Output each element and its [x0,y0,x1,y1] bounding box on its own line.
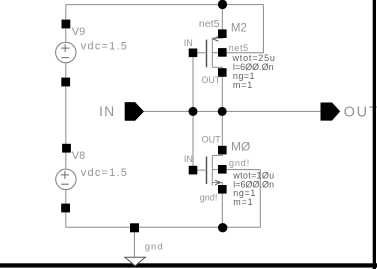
junction dot OUT [218,107,227,116]
pin M0 source [218,185,227,194]
wire left rail vertical (V9 top) [65,5,67,43]
source arrow (pmos, points to channel) [213,37,219,42]
wire bottom rail gnd [66,226,260,228]
svg-text:gnd!: gnd! [200,193,218,203]
pin M2 drain [218,68,227,77]
border bottom [0,263,377,267]
bulk leg [212,169,218,171]
pin M0 drain [218,146,227,155]
drain leg [212,152,222,155]
channel bar [211,38,213,67]
wire gnd stub [133,232,135,257]
gate wire [193,169,207,171]
wire gate column [192,57,194,166]
junction dot net5 top [218,0,227,9]
source leg [212,183,222,186]
svg-text:vdc=1.5: vdc=1.5 [81,40,128,52]
border right [373,0,376,269]
wire M0 source to bottom rail [221,193,223,227]
wire top rail net5 [66,4,264,6]
svg-text:V8: V8 [72,150,85,162]
pin V8 plus terminal [62,144,71,153]
pin V8 minus terminal [61,204,70,213]
pin V9 plus terminal [62,20,71,29]
voltage source V9 [56,42,76,62]
pin M2 source [218,29,227,38]
gate bar [206,157,208,185]
pin M0 gate [189,166,198,175]
svg-text:net5: net5 [199,18,220,30]
pin V9 minus terminal [61,78,70,87]
source arrow (nmos, points away) [215,180,221,185]
svg-text:m=1: m=1 [233,197,253,207]
junction dot IN gate [189,107,198,116]
gate wire [193,52,207,54]
pin M2 gate [189,49,198,58]
svg-text:MØ: MØ [231,139,250,153]
port IN [125,102,144,121]
voltage source V8 [56,169,76,189]
gate bar [206,40,208,68]
svg-text:IN: IN [184,154,193,164]
wire vdd column to M2 source [221,5,223,30]
junction dot gnd bottom [218,223,227,232]
svg-text:OUT: OUT [344,105,377,121]
transistor M2 (PMOS) [193,34,222,70]
channel bar [211,155,213,185]
bulk leg [212,52,218,54]
wire V8 bottom to bottom rail corner [65,189,67,227]
wire V9 bottom to V8 top [65,63,67,170]
svg-text:gnd!: gnd! [229,158,250,168]
svg-text:IN: IN [99,103,115,119]
port OUT [321,103,341,121]
pin M2 bulk [218,48,227,57]
drain leg [212,67,222,70]
wire net5 bulk loop [226,5,263,53]
svg-text:vdc=1.5: vdc=1.5 [81,167,128,179]
svg-text:m=1: m=1 [233,80,253,90]
pin gnd terminal [130,223,139,232]
svg-text:M2: M2 [231,22,247,34]
svg-text:IN: IN [184,38,193,48]
transistor M0 (NMOS) [193,152,222,186]
svg-text:V9: V9 [72,26,85,38]
svg-text:OUT: OUT [201,75,221,85]
pin M0 bulk [218,165,227,174]
wire output column M2 drain to M0 drain [221,77,223,147]
svg-text:gnd: gnd [145,241,164,252]
svg-text:OUT: OUT [202,135,222,145]
source leg [212,34,222,39]
svg-text:net5: net5 [229,43,249,53]
wire IN to OUT rail [144,110,321,112]
wire gnd bulk loop [226,170,260,228]
ground symbol [125,257,146,266]
